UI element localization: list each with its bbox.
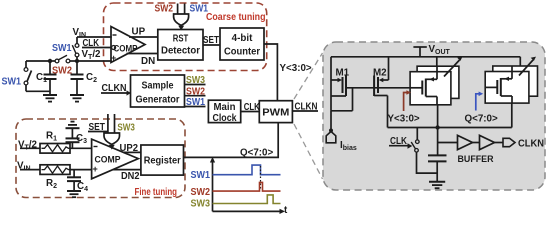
op-amp COMP2 (fine comparator) bbox=[92, 139, 139, 179]
Ibias port symbol bbox=[326, 132, 336, 143]
switch SW1 (input discharge, far left) bbox=[26, 61, 32, 91]
wire CLKN out of PWM bbox=[292, 110, 318, 112]
inverted ground (C3) bbox=[66, 122, 80, 129]
svg-text:Main: Main bbox=[214, 102, 236, 113]
gate input line SW1 bbox=[184, 4, 186, 15]
wire CLK main clock to PWM bbox=[241, 111, 260, 113]
svg-text:SET: SET bbox=[203, 35, 219, 46]
buffer stage 1 bbox=[458, 135, 473, 149]
wire bus to switch bbox=[416, 128, 418, 140]
capacitor C2 bbox=[71, 61, 84, 95]
wire counter output to PWM bbox=[264, 44, 277, 101]
wire C1 node to SW2 bbox=[50, 60, 55, 62]
clock bubble on COMP bbox=[112, 46, 116, 50]
callout dashed diagonal bottom (PWM to panel) bbox=[294, 124, 323, 179]
ground (panel) bbox=[429, 182, 445, 188]
svg-text:PWM: PWM bbox=[262, 107, 289, 119]
wire bottom link to Ibias bbox=[331, 110, 353, 112]
node C1 top junction bbox=[48, 59, 52, 63]
wire to buffer input bbox=[438, 142, 458, 144]
wire VIN corner down to SW1b bbox=[76, 37, 78, 44]
svg-text:SW2: SW2 bbox=[155, 4, 174, 15]
svg-text:Sample: Sample bbox=[142, 81, 174, 92]
fine tuning dashed box bbox=[16, 119, 185, 198]
node C2 top junction bbox=[75, 59, 79, 63]
wire stub SW2 out bbox=[185, 95, 206, 97]
svg-text:Q<7:0>: Q<7:0> bbox=[465, 113, 499, 124]
wire SW1a bottom to C1 ground bbox=[26, 90, 50, 92]
svg-text:SW2: SW2 bbox=[186, 87, 205, 98]
callout dashed diagonal top (PWM to panel) bbox=[294, 53, 323, 99]
waveform SW3 bbox=[213, 195, 281, 204]
waveform SW1 bbox=[213, 165, 281, 175]
waveform SW2 bbox=[213, 182, 281, 191]
svg-text:DN2: DN2 bbox=[121, 171, 140, 182]
wire cap column bbox=[437, 128, 439, 156]
dotted edge alignment line bbox=[260, 166, 262, 190]
wire mirror gate line bbox=[346, 87, 422, 89]
capacitor (panel) bbox=[428, 155, 447, 181]
gate input line SW3 bbox=[114, 114, 116, 133]
varactor bank 1 back box bbox=[417, 66, 459, 98]
svg-text:SW1: SW1 bbox=[191, 170, 211, 181]
svg-text:SW1: SW1 bbox=[2, 77, 22, 88]
svg-text:BUFFER: BUFFER bbox=[458, 154, 494, 164]
svg-text:SW2: SW2 bbox=[52, 66, 73, 77]
set AND gate (SW3) bbox=[104, 133, 120, 144]
wire DN2 bbox=[113, 169, 141, 171]
switch SW2 (series) bbox=[55, 59, 70, 63]
svg-text:CLKN: CLKN bbox=[102, 83, 127, 94]
VOUT supply rail bbox=[331, 56, 520, 58]
gate input line SET bbox=[107, 114, 109, 133]
svg-text:CLK: CLK bbox=[83, 38, 100, 49]
varactor bank 2 back box bbox=[493, 66, 538, 96]
svg-text:Clock: Clock bbox=[213, 113, 237, 124]
bank2 MOSFET bbox=[485, 66, 512, 103]
varactor bank 1 front box bbox=[410, 72, 451, 105]
svg-text:DN: DN bbox=[141, 56, 155, 67]
wire switch to ground link bbox=[417, 152, 437, 173]
svg-text:SW1: SW1 bbox=[186, 97, 205, 108]
svg-text:Fine tuning: Fine tuning bbox=[135, 186, 178, 198]
ground (C2) bbox=[70, 95, 84, 102]
svg-text:Generator: Generator bbox=[136, 95, 180, 106]
wire bottom bus bbox=[388, 127, 512, 129]
block 4-bit Counter bbox=[220, 28, 264, 60]
wire mirror drop bbox=[352, 88, 354, 111]
wire left branch (Ibias column) bbox=[330, 57, 332, 111]
node bus junction bbox=[435, 125, 439, 129]
minus marker COMP bbox=[113, 34, 117, 36]
wire SET underline bbox=[88, 131, 108, 133]
wire UP2 bbox=[123, 151, 141, 153]
gate input line SW2 bbox=[177, 4, 179, 15]
gate output arrow into RST bbox=[178, 26, 184, 31]
gray zoom panel background bbox=[323, 42, 545, 190]
bank1 tuning arrow bbox=[444, 60, 460, 77]
switch SW1 (sampling, vertical above C2) bbox=[75, 44, 79, 57]
resistor R2 bbox=[20, 165, 92, 175]
wire stub SW3 out bbox=[185, 84, 206, 86]
svg-text:Register: Register bbox=[144, 156, 181, 167]
svg-text:Counter: Counter bbox=[224, 47, 260, 58]
svg-text:SW3: SW3 bbox=[117, 123, 135, 134]
VOUT symbol bbox=[419, 47, 421, 57]
wire DN bbox=[127, 53, 159, 55]
wire CLK into COMP bbox=[82, 47, 111, 49]
svg-text:Coarse tuning: Coarse tuning bbox=[206, 11, 266, 23]
wire CLKN into sample generator bbox=[101, 92, 127, 94]
block Main Clock bbox=[208, 100, 240, 122]
reset AND gate (SW2,SW1) bbox=[174, 14, 189, 25]
block Register bbox=[141, 145, 184, 175]
svg-text:+: + bbox=[111, 53, 116, 63]
wire SW1b bottom to node bbox=[76, 57, 78, 61]
timing axis horizontal bbox=[213, 210, 281, 212]
coarse tuning dashed box bbox=[104, 3, 267, 71]
svg-text:Y<3:0>: Y<3:0> bbox=[388, 113, 420, 124]
varactor bank 2 front box bbox=[485, 72, 529, 104]
svg-text:SW2: SW2 bbox=[191, 187, 211, 198]
minus marker COMP2 bbox=[94, 146, 98, 148]
output port CLKN bbox=[503, 138, 515, 146]
wire stub SW1 out bbox=[185, 106, 206, 108]
svg-text:Detector: Detector bbox=[161, 46, 200, 57]
svg-text:CLKN: CLKN bbox=[295, 102, 318, 113]
annotation arrow Q<7:0> bbox=[476, 94, 479, 111]
svg-text:RST: RST bbox=[173, 34, 189, 45]
transistor M2 bbox=[374, 57, 388, 128]
wire Q bus register to PWM bbox=[184, 123, 279, 158]
svg-text:M2: M2 bbox=[373, 68, 387, 79]
svg-text:CLKN: CLKN bbox=[518, 138, 544, 149]
svg-text:UP2: UP2 bbox=[120, 143, 139, 154]
bank1 MOSFET bbox=[410, 66, 437, 105]
svg-text:4-bit: 4-bit bbox=[232, 33, 253, 44]
wire UP bbox=[129, 36, 158, 38]
transistor M1 bbox=[331, 76, 346, 97]
capacitor C1 bbox=[44, 61, 57, 95]
wire SW1a top to C1 node bbox=[26, 60, 50, 62]
op-amp COMP (coarse comparator) bbox=[111, 27, 145, 63]
bank2 tuning arrow bbox=[519, 60, 533, 76]
bank2 rail corner bbox=[519, 57, 521, 66]
ground (C1) bbox=[43, 95, 57, 102]
annotation arrow Y<3:0> bbox=[404, 93, 407, 112]
svg-text:SW3: SW3 bbox=[191, 199, 211, 210]
resistor R1 bbox=[20, 144, 92, 154]
svg-text:UP: UP bbox=[132, 27, 146, 38]
svg-text:M1: M1 bbox=[336, 68, 350, 79]
svg-text:SW3: SW3 bbox=[186, 75, 205, 86]
block Sample Generator bbox=[131, 75, 185, 107]
wire bank1 bottom bbox=[437, 105, 439, 128]
wire buffer link bbox=[473, 142, 480, 144]
svg-text:SW1: SW1 bbox=[190, 4, 209, 15]
ground (C4) bbox=[67, 191, 81, 197]
wire bank2 bottom bbox=[511, 103, 513, 127]
svg-text:+: + bbox=[93, 164, 98, 174]
capacitor C4 bbox=[67, 170, 81, 191]
wire SET bbox=[203, 44, 220, 46]
capacitor C3 bbox=[66, 128, 80, 148]
svg-text:Q<7:0>: Q<7:0> bbox=[240, 148, 274, 159]
wire SW2 to C2 node bbox=[70, 60, 77, 62]
gate output arrow into COMP2 bbox=[109, 145, 115, 150]
svg-text:CLK: CLK bbox=[244, 102, 260, 113]
wire VT/2 node to COMP plus input bbox=[77, 60, 112, 62]
wire buffer out bbox=[495, 142, 504, 144]
svg-text:COMP: COMP bbox=[95, 155, 122, 166]
wire VIN into COMP bbox=[77, 36, 112, 38]
svg-text:Y<3:0>: Y<3:0> bbox=[280, 63, 312, 74]
timing axis vertical bbox=[212, 161, 214, 211]
bank1 rail stub bbox=[436, 57, 438, 66]
svg-text:SW1: SW1 bbox=[52, 43, 72, 54]
buffer stage 2 bbox=[480, 135, 495, 149]
block PWM bbox=[259, 101, 292, 123]
block Detector bbox=[158, 30, 203, 61]
